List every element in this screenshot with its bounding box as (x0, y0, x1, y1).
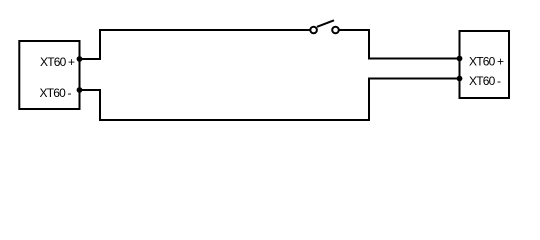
wire J1+ to switch S1 (80, 30, 310, 59)
node J2 negative terminal (457, 76, 463, 82)
node J1 negative terminal (77, 87, 83, 93)
connector J2 (right XT60) (460, 31, 510, 98)
wire J1- to J2- (80, 79, 460, 121)
node J2 positive terminal (457, 56, 463, 62)
svg-text:XT60 +: XT60 + (469, 54, 504, 68)
wire switch S1 to J2+ (340, 30, 460, 59)
svg-text:XT60 -: XT60 - (40, 86, 72, 100)
connector J1 (left XT60) (19, 41, 79, 109)
svg-text:XT60 -: XT60 - (469, 74, 501, 88)
switch S1 (SPST, open) (310, 20, 339, 33)
svg-text:XT60 +: XT60 + (40, 55, 75, 69)
node J1 positive terminal (77, 56, 83, 62)
